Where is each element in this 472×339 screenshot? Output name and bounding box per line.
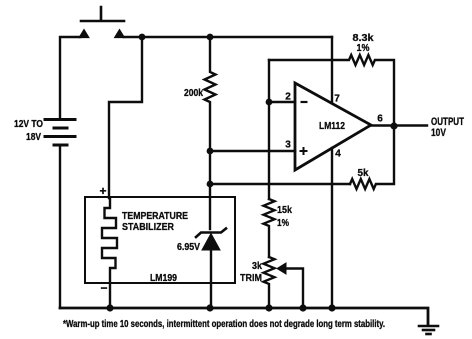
svg-text:3k: 3k [252,261,262,272]
label plus input (pin 3) [300,147,308,155]
switch S1 [79,7,125,38]
svg-text:TEMPERATURE: TEMPERATURE [122,211,188,222]
resistor 8.3k 1% (feedback) [269,55,394,126]
svg-text:TRIM: TRIM [240,273,262,284]
resistor 15k 1% [264,199,275,257]
junction: top rail / 200k [207,34,214,41]
label minus input (pin 2) [301,101,308,103]
battery 12V-18V [45,120,75,146]
junction: heater return / ground bus [106,304,113,311]
wire pin 7 (V+) [331,37,333,103]
junction: top rail / heater supply [139,34,146,41]
svg-text:15k: 15k [277,205,292,216]
junction: zener anode / ground bus [206,304,213,311]
wire heater supply (top rail to stabilizer box) [109,37,142,198]
wire node A (pin3) to op-amp [210,150,295,152]
label OUTPUT 10V [431,116,464,139]
junction: trimpot / ground bus [265,304,272,311]
svg-text:12V TO: 12V TO [14,119,43,130]
svg-text:5k: 5k [358,168,369,179]
svg-text:STABILIZER: STABILIZER [122,222,175,233]
svg-text:18V: 18V [26,132,41,143]
svg-text:2: 2 [285,92,291,103]
bottom rail (ground bus) [60,308,428,325]
resistor 5k [350,126,394,189]
heater element (square-wave) [102,198,117,308]
svg-text:6: 6 [377,114,383,125]
wire zener node down [209,151,211,229]
wire battery negative to bottom rail [59,145,61,308]
svg-text:1%: 1% [357,43,370,54]
LM199 temperature stabilizer box [85,197,235,283]
junction: pin 2 / feedback [266,99,273,106]
label TEMPERATURE STABILIZER [122,211,188,233]
svg-text:1%: 1% [277,218,289,229]
svg-text:4: 4 [335,149,341,160]
svg-text:+: + [99,184,106,198]
trimpot 3k TRIM [264,257,304,308]
wire pin 2 feedback column [268,60,270,199]
svg-text:LM199: LM199 [150,273,177,284]
svg-text:6.95V: 6.95V [177,242,200,253]
ground [419,326,438,334]
wire zener bias node to 5k [210,183,350,185]
junction: output node [390,122,397,129]
svg-text:−: − [100,281,107,295]
label 8.3k 1% [353,33,374,54]
junction: pin 4 / ground bus [328,304,335,311]
wire output [371,124,427,126]
op-amp U1 LM112 [295,83,371,170]
wire top rail right [124,36,332,38]
wire pin 2 to op-amp [269,101,295,103]
wire pin 4 (V-) to bottom rail [331,148,333,308]
junction: wiper return / ground bus [299,304,306,311]
svg-text:LM112: LM112 [319,121,345,132]
label 12V TO 18V [14,119,43,143]
label 15k 1% [277,205,292,229]
svg-text:3: 3 [285,140,291,151]
svg-text:*Warm-up time 10 seconds, inte: *Warm-up time 10 seconds, intermittent o… [63,319,385,330]
junction: zener node / pin 3 [207,148,214,155]
svg-text:200k: 200k [184,88,203,99]
zener diode 6.95V [196,229,226,309]
svg-text:10V: 10V [431,127,447,139]
junction: zener node / 5k wire [207,181,214,188]
label 3k TRIM [240,261,262,284]
wire top rail left (switch to battery) [60,37,80,119]
resistor 200k [205,37,216,151]
svg-text:7: 7 [334,94,340,105]
